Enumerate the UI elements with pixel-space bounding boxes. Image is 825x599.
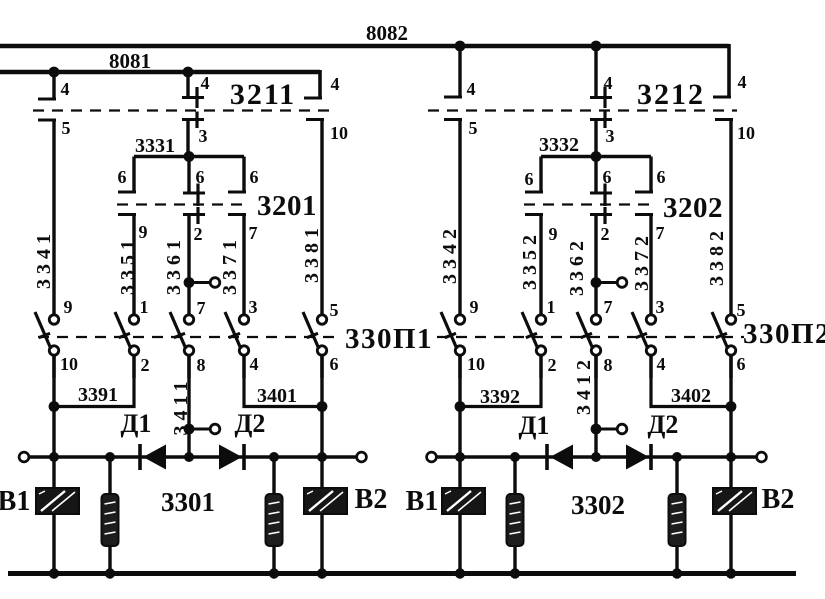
svg-text:4: 4	[201, 73, 210, 93]
svg-text:8: 8	[197, 355, 206, 375]
svg-text:6: 6	[603, 167, 612, 187]
svg-text:4: 4	[467, 79, 476, 99]
svg-text:7: 7	[197, 298, 206, 318]
svg-text:10: 10	[737, 123, 755, 143]
svg-text:6: 6	[525, 169, 534, 189]
svg-text:1: 1	[140, 297, 149, 317]
svg-text:9: 9	[549, 224, 558, 244]
svg-text:3392: 3392	[480, 386, 520, 408]
svg-text:3302: 3302	[571, 490, 625, 520]
svg-text:3201: 3201	[257, 190, 317, 222]
svg-text:8081: 8081	[109, 49, 151, 73]
svg-text:В1: В1	[406, 486, 439, 517]
svg-text:3391: 3391	[78, 384, 118, 406]
svg-text:3301: 3301	[161, 487, 215, 517]
svg-text:В2: В2	[762, 484, 795, 515]
svg-text:3382: 3382	[706, 226, 728, 286]
svg-text:330П2: 330П2	[743, 318, 825, 350]
svg-text:9: 9	[139, 222, 148, 242]
svg-text:Д1: Д1	[519, 411, 550, 440]
svg-text:7: 7	[249, 223, 258, 243]
svg-text:6: 6	[250, 167, 259, 187]
svg-text:3351: 3351	[117, 235, 139, 295]
svg-text:7: 7	[656, 223, 665, 243]
svg-text:4: 4	[604, 73, 613, 93]
svg-text:4: 4	[61, 79, 70, 99]
svg-text:10: 10	[60, 354, 78, 374]
svg-text:3381: 3381	[301, 223, 323, 283]
svg-text:6: 6	[196, 167, 205, 187]
svg-text:4: 4	[657, 354, 666, 374]
svg-text:10: 10	[467, 354, 485, 374]
svg-text:8: 8	[604, 355, 613, 375]
svg-text:8082: 8082	[366, 21, 408, 45]
svg-text:3371: 3371	[219, 235, 241, 295]
svg-text:2: 2	[548, 355, 557, 375]
svg-text:В1: В1	[0, 486, 30, 517]
svg-text:3361: 3361	[163, 235, 185, 295]
svg-text:5: 5	[469, 118, 478, 138]
svg-text:3211: 3211	[230, 78, 296, 111]
svg-text:4: 4	[250, 354, 259, 374]
svg-text:3331: 3331	[135, 135, 175, 157]
svg-text:9: 9	[64, 297, 73, 317]
svg-text:7: 7	[604, 297, 613, 317]
svg-text:10: 10	[330, 123, 348, 143]
svg-text:3332: 3332	[539, 134, 579, 156]
svg-text:3401: 3401	[257, 385, 297, 407]
svg-text:5: 5	[330, 300, 339, 320]
svg-text:4: 4	[738, 72, 747, 92]
svg-text:3202: 3202	[663, 192, 723, 224]
svg-text:2: 2	[194, 224, 203, 244]
svg-text:3352: 3352	[519, 230, 541, 290]
svg-text:3402: 3402	[671, 385, 711, 407]
svg-text:3212: 3212	[637, 78, 705, 111]
svg-text:5: 5	[737, 300, 746, 320]
svg-text:Д1: Д1	[121, 409, 152, 438]
svg-text:3411: 3411	[170, 377, 192, 436]
svg-text:2: 2	[601, 224, 610, 244]
svg-text:6: 6	[118, 167, 127, 187]
svg-text:1: 1	[547, 297, 556, 317]
svg-text:3342: 3342	[439, 224, 461, 284]
svg-text:6: 6	[330, 354, 339, 374]
svg-text:5: 5	[62, 118, 71, 138]
svg-text:3: 3	[249, 297, 258, 317]
svg-text:9: 9	[470, 297, 479, 317]
svg-text:Д2: Д2	[648, 410, 679, 439]
svg-text:6: 6	[737, 354, 746, 374]
svg-text:В2: В2	[355, 484, 388, 515]
svg-text:3: 3	[606, 126, 615, 146]
svg-text:3362: 3362	[566, 236, 588, 296]
svg-text:3: 3	[199, 126, 208, 146]
svg-text:Д2: Д2	[235, 409, 266, 438]
svg-text:4: 4	[331, 74, 340, 94]
svg-text:3: 3	[656, 297, 665, 317]
svg-text:330П1: 330П1	[345, 323, 433, 355]
svg-text:2: 2	[141, 355, 150, 375]
svg-text:3341: 3341	[33, 229, 55, 289]
svg-text:3372: 3372	[631, 231, 653, 291]
svg-text:6: 6	[657, 167, 666, 187]
svg-text:3412: 3412	[573, 355, 595, 415]
